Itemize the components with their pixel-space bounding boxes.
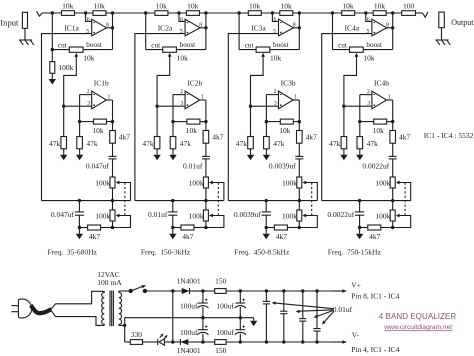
svg-text:47k: 47k [273, 139, 285, 148]
pin 8 IC1a [106, 22, 109, 28]
label V+ [351, 281, 361, 290]
capacitor 100uf C4 [235, 325, 246, 335]
label 10k feedback stage2 [186, 126, 198, 135]
svg-text:0.01uf: 0.01uf [148, 210, 168, 219]
op-amp IC1a [92, 19, 107, 36]
wire rail to cap lower stage1 [78, 201, 80, 212]
svg-text:V-: V- [352, 330, 360, 339]
node stage4 mid junction [364, 11, 367, 14]
wire node to diode bottom [173, 341, 181, 343]
svg-text:47k: 47k [236, 139, 248, 148]
wire 100k to ground [51, 73, 53, 79]
wire IC2b output column [205, 100, 207, 156]
wire IC2b inverting input [173, 94, 185, 96]
svg-text:IC1a: IC1a [64, 24, 79, 33]
capacitor 0.0022uf lower stage4 [355, 212, 364, 215]
node rail cap junction stage1 [78, 199, 81, 202]
node V- filter input [201, 340, 204, 343]
wire pot2 bottom stage3 [298, 221, 300, 228]
svg-text:150: 150 [215, 277, 227, 286]
wire boost side stage1 [83, 49, 113, 51]
svg-text:4k7: 4k7 [369, 232, 381, 241]
node 4k7 lower left stage1 [78, 226, 81, 229]
label 100k upper stage1 [95, 178, 110, 187]
svg-text:Freq. 750-15kHz: Freq. 750-15kHz [328, 248, 382, 257]
label 100k upper stage2 [189, 178, 204, 187]
pin 6 IC4a [367, 17, 370, 23]
wire 47k second to ground stage4 [359, 149, 361, 155]
resistor 10k stage1 second [93, 1, 106, 15]
wire stage2 output column [205, 13, 207, 50]
svg-text:1N4001: 1N4001 [177, 346, 201, 355]
node secondary bottom junction [123, 324, 126, 327]
potentiometer 100k lower stage2 wiper [206, 214, 224, 228]
label cut stage2 [151, 41, 160, 49]
pin 1 IC1b [108, 95, 111, 101]
wire IC3a output [293, 27, 299, 29]
wire IC3b inverting input [266, 94, 278, 96]
wire IC1b output column [112, 100, 114, 156]
wire AC top to LED row [172, 291, 174, 342]
node stage4 input junction [331, 11, 334, 14]
node rail pot junction stage2 [204, 199, 207, 202]
resistor 47k first stage4 [341, 137, 347, 149]
label 4k7 lower stage1 [89, 232, 101, 241]
resistor 4k7 upper stage1 [110, 131, 116, 144]
wire feedback left stage2 [173, 121, 187, 123]
label cap upper stage1 [86, 162, 110, 171]
op-amp IC4a [372, 19, 387, 36]
potentiometer 100k lower stage4 wiper [393, 214, 411, 228]
svg-text:100k: 100k [189, 211, 204, 220]
pin 5 IC4a [367, 29, 370, 35]
label Output [451, 18, 474, 27]
wire 150 to V+ rail [226, 290, 332, 292]
node V+ cap2 junction [239, 289, 242, 292]
pin 3 IC3b [274, 101, 277, 107]
wire rail to cap lower stage4 [359, 201, 361, 212]
svg-text:10k: 10k [156, 1, 168, 10]
svg-text:0.0022uf: 0.0022uf [362, 162, 389, 171]
wire 150 to V- rail [226, 341, 332, 343]
svg-text:47k: 47k [142, 139, 154, 148]
label boost stage1 [86, 41, 102, 49]
capacitor 0.01uf lower stage2 [168, 212, 177, 215]
label 150 top [215, 277, 227, 286]
wire lower ground stage2 [172, 228, 174, 234]
label 100k upper stage3 [282, 178, 297, 187]
resistor 4k7 lower stage4 [368, 225, 381, 230]
svg-text:100uf: 100uf [216, 302, 234, 311]
label 4k7 upper stage2 [212, 133, 224, 142]
wire C2 top [202, 318, 204, 330]
wire bottom rail stage4 [322, 200, 411, 202]
wire node to 150 top [203, 290, 215, 292]
svg-text:10k: 10k [363, 53, 375, 62]
svg-text:cut: cut [58, 41, 67, 49]
svg-text:10k: 10k [373, 126, 385, 135]
svg-text:10k: 10k [92, 126, 104, 135]
capacitor 100uf C3 [235, 299, 246, 309]
resistor 47k second stage1 [77, 137, 83, 149]
svg-text:10k: 10k [249, 1, 261, 10]
wire pointer cap3 [314, 310, 334, 317]
resistor 100k input bias [50, 62, 55, 74]
node 4k7 lower left stage3 [265, 226, 268, 229]
wire rail to cap lower stage3 [265, 201, 267, 212]
label 4k7 upper stage3 [306, 133, 318, 142]
diode D1 1N4001 [182, 288, 190, 294]
ground 47k second stage3 [263, 155, 270, 161]
label 47k first stage1 [49, 139, 61, 148]
label freq stage3 [234, 248, 290, 257]
wire IC1a inverting input [86, 13, 92, 21]
svg-text:4k7: 4k7 [182, 232, 194, 241]
ground 47k second stage4 [356, 155, 363, 161]
resistor 47k second stage2 [170, 137, 176, 149]
ground 47k first stage3 [247, 155, 254, 161]
wire boost side stage3 [270, 49, 300, 51]
node decoupling cap 4 bottom [315, 340, 318, 343]
svg-text:100k: 100k [282, 178, 297, 187]
node IC3a output [298, 26, 301, 29]
wire center rail [125, 317, 254, 319]
wire center to 330 [125, 341, 131, 343]
node decoupling cap 1 top [265, 289, 268, 292]
resistor 47k first stage2 [154, 137, 160, 149]
wire feedback left stage1 [80, 121, 94, 123]
wire IC1b output [106, 99, 112, 101]
wire gang dashed stage3 [311, 183, 313, 216]
capacitor 0.0039uf upper stage3 [295, 156, 303, 159]
resistor 10k stage4 second [373, 1, 386, 15]
ground center rail [250, 321, 257, 327]
node rail pot junction stage3 [298, 199, 301, 202]
ground 47k first stage4 [340, 155, 347, 161]
capacitor 0.0022uf upper stage4 [389, 156, 397, 159]
svg-text:IC3b: IC3b [281, 79, 296, 88]
ground lower stage3 [263, 234, 270, 240]
node IC1b non-inverting junction [62, 105, 65, 108]
pin 8 IC3a [293, 22, 296, 28]
pin 1 IC4b [388, 95, 391, 101]
op-amp IC1b [92, 91, 107, 109]
wire pot2 bottom stage1 [112, 221, 114, 228]
svg-text:6: 6 [180, 17, 183, 23]
svg-text:100k: 100k [375, 211, 390, 220]
capacitor 100uf C1 [197, 299, 208, 309]
svg-text:10k: 10k [186, 126, 198, 135]
svg-text:IC4a: IC4a [345, 24, 360, 33]
node stage1 mid junction [84, 11, 87, 14]
wire secondary bottom [119, 324, 125, 326]
svg-text:330: 330 [131, 330, 143, 339]
node pot2 bottom stage3 [298, 226, 301, 229]
node decoupling cap 1 bottom [265, 340, 268, 343]
node rail cap junction stage4 [358, 199, 361, 202]
wire feedback column stage3 [265, 95, 267, 137]
potentiometer 10k stage4 wiper [344, 53, 359, 106]
wire IC4a output [387, 27, 393, 29]
wire cut side stage2 [146, 49, 163, 51]
wire IC1b non-inverting input [64, 105, 92, 107]
svg-text:IC4b: IC4b [374, 79, 389, 88]
svg-text:100uf: 100uf [216, 328, 234, 337]
label 330 [131, 330, 143, 339]
wire 47k first top stage4 [343, 106, 345, 136]
wire output load to ground [441, 28, 443, 40]
wire to output break [416, 12, 423, 14]
wire stage4 output column [392, 13, 394, 50]
wire 4k7 lower right stage2 [194, 227, 206, 229]
node decoupling cap 2 top [282, 289, 285, 292]
svg-text:6: 6 [87, 17, 90, 23]
pin 6 IC3a [274, 17, 277, 23]
wire center rail ground stem [253, 318, 255, 321]
svg-text:0.0039uf: 0.0039uf [234, 210, 261, 219]
wire C3 top [239, 291, 241, 303]
wire 4k7 lower right stage4 [381, 227, 393, 229]
wire switch to diode [145, 290, 182, 292]
node stage2 input junction [144, 11, 147, 14]
pin 2 IC1b [87, 89, 90, 95]
wire cut side stage4 [333, 49, 350, 51]
resistor 10k feedback stage2 [187, 119, 200, 124]
node feedback left stage4 [358, 120, 361, 123]
label cap upper stage2 [183, 162, 203, 171]
node pot2 bottom stage4 [391, 226, 394, 229]
resistor 47k first stage3 [248, 137, 254, 149]
node feedback left stage1 [78, 120, 81, 123]
wire gang dashed stage4 [404, 183, 406, 216]
wire 47k first top stage1 [63, 106, 65, 136]
node stage2 output junction [204, 11, 207, 14]
wire lower ground stage3 [265, 228, 267, 234]
potentiometer 100k upper stage2 body [203, 177, 208, 188]
wire C4 bottom [239, 334, 241, 342]
wire top signal rail [42, 12, 402, 14]
svg-text:boost: boost [86, 41, 102, 49]
op-amp IC4b [372, 91, 387, 109]
wire stage4 input column [332, 13, 334, 50]
pin 5 IC3a [273, 29, 276, 35]
node stage1 input junction [51, 11, 54, 14]
label 4k7 lower stage2 [182, 232, 194, 241]
wire stage1 output column [112, 13, 114, 50]
svg-text:4k7: 4k7 [119, 133, 131, 142]
ground lower stage4 [356, 234, 363, 240]
potentiometer 100k upper stage3 body [297, 177, 302, 188]
node V- cap junction [239, 340, 242, 343]
pin 3 IC4b [367, 101, 370, 107]
node center rail cap2 [239, 316, 242, 319]
ground lower stage2 [169, 234, 176, 240]
svg-text:6: 6 [367, 17, 370, 23]
node stage3 input junction [237, 11, 240, 14]
wire cap lower to 4k7 stage3 [265, 215, 267, 227]
ground 100k [49, 79, 56, 85]
capacitor 0.047uf upper stage1 [109, 156, 117, 159]
capacitor 100uf C2 [197, 325, 208, 335]
wire input connector break [37, 11, 43, 16]
wire cap to pot1 stage2 [205, 159, 207, 177]
node stage3 mid junction [271, 11, 274, 14]
svg-text:IC1 - IC4 : 5532: IC1 - IC4 : 5532 [424, 131, 474, 140]
potentiometer 100k lower stage1 wiper [113, 214, 131, 228]
label cut stage3 [245, 41, 254, 49]
svg-text:cut: cut [338, 41, 347, 49]
label cap lower stage1 [51, 210, 75, 219]
wire secondary top to switch [119, 290, 131, 292]
node IC3b non-inverting junction [249, 105, 252, 108]
node V+ filter input [201, 289, 204, 292]
wire decoupling cap 4 column [316, 291, 318, 342]
node feedback right stage3 [298, 120, 301, 123]
wire IC2a non-inverting input loop [135, 34, 185, 201]
node IC1a output [111, 26, 114, 29]
node feedback right stage2 [204, 120, 207, 123]
label 100uf C1 [180, 302, 198, 311]
wire C3 bottom [239, 307, 241, 318]
ground input (chassis) [19, 40, 34, 45]
resistor 150 bottom [215, 340, 226, 345]
potentiometer 100k upper stage4 wiper [396, 181, 411, 201]
node rail pot junction stage4 [391, 199, 394, 202]
pin 3 IC2b [181, 101, 184, 107]
wire cap lower to 4k7 stage1 [78, 215, 80, 227]
node decoupling cap 3 top [301, 289, 304, 292]
svg-text:100k: 100k [95, 211, 110, 220]
potentiometer 100k lower stage3 body [297, 210, 302, 221]
wire feedback right stage3 [293, 121, 299, 123]
potentiometer 100k lower stage3 wiper [299, 214, 317, 228]
pin 3 IC1b [87, 101, 90, 107]
svg-text:Output: Output [451, 18, 474, 27]
potentiometer 100k lower stage4 body [390, 210, 395, 221]
svg-text:4k7: 4k7 [306, 133, 318, 142]
svg-text:4k7: 4k7 [212, 133, 224, 142]
potentiometer 10k stage1 wiper [64, 53, 78, 106]
wire cap to pot1 stage3 [298, 159, 300, 177]
label 100k lower stage2 [189, 211, 204, 220]
svg-text:10k: 10k [270, 53, 282, 62]
ground 47k first stage2 [153, 155, 160, 161]
capacitor 0.01uf upper stage2 [202, 156, 210, 159]
wire feedback column stage2 [172, 95, 174, 137]
resistor 10k feedback stage1 [94, 119, 107, 124]
potentiometer 10k stage3 body [256, 47, 270, 52]
wire diode to V- node [188, 341, 203, 343]
wire 47k first to ground stage3 [250, 149, 252, 155]
svg-text:6: 6 [274, 17, 277, 23]
node feedback right stage4 [391, 120, 394, 123]
svg-text:100k: 100k [189, 178, 204, 187]
wire bottom rail stage3 [228, 200, 317, 202]
svg-text:100k: 100k [95, 178, 110, 187]
label 150 bottom [215, 346, 227, 355]
svg-text:47k: 47k [329, 139, 341, 148]
wire feedback right stage2 [200, 121, 206, 123]
label 47k second stage4 [367, 139, 379, 148]
label 47k first stage4 [329, 139, 341, 148]
svg-text:100 mA: 100 mA [97, 278, 122, 287]
label 100k upper stage4 [375, 178, 390, 187]
svg-text:Freq. 450-8.5kHz: Freq. 450-8.5kHz [234, 248, 290, 257]
svg-text:150: 150 [215, 346, 227, 355]
label 100k lower stage4 [375, 211, 390, 220]
svg-text:1N4001: 1N4001 [177, 277, 201, 286]
wire IC4b non-inverting input [344, 105, 372, 107]
node Input label [0, 17, 19, 27]
resistor 10k stage3 second [280, 1, 293, 15]
switch S1 [129, 285, 148, 293]
svg-text:0.0022uf: 0.0022uf [327, 210, 354, 219]
potentiometer 100k upper stage2 wiper [209, 181, 224, 201]
label boost stage3 [273, 41, 289, 49]
wire cap lower to 4k7 stage2 [172, 215, 174, 227]
svg-text:IC1b: IC1b [94, 79, 109, 88]
wire feedback right stage4 [387, 121, 393, 123]
node decoupling cap 2 bottom [282, 340, 285, 343]
LED indicator [158, 334, 168, 346]
node stage1 cut junction [51, 48, 54, 51]
capacitor 0.01uf decoupling 1 [263, 301, 270, 304]
label boost stage2 [180, 41, 196, 49]
node stage2 mid junction [177, 11, 180, 14]
pin 2 IC4b [367, 89, 370, 95]
op-amp IC2a [185, 19, 200, 36]
wire 47k first to ground stage2 [156, 149, 158, 155]
svg-text:0.047uf: 0.047uf [51, 210, 75, 219]
node IC4a output [391, 26, 394, 29]
svg-text:10k: 10k [62, 1, 74, 10]
potentiometer 10k stage4 body [350, 47, 364, 52]
svg-text:cut: cut [151, 41, 160, 49]
wire gang dashed stage1 [124, 183, 126, 216]
ground output (chassis) [436, 40, 451, 45]
wire feedback right stage1 [107, 121, 113, 123]
svg-text:www.circuitdiagram.net: www.circuitdiagram.net [383, 324, 452, 331]
node stage3 output junction [298, 11, 301, 14]
label cap lower stage4 [327, 210, 354, 219]
svg-text:10k: 10k [83, 53, 95, 62]
node feedback left stage2 [171, 120, 174, 123]
label 12VAC [97, 270, 119, 279]
potentiometer 10k stage2 body [163, 47, 177, 52]
wire IC4a non-inverting input loop [322, 34, 372, 201]
svg-text:4k7: 4k7 [276, 232, 288, 241]
svg-text:10k: 10k [187, 1, 199, 10]
label freq stage2 [141, 248, 191, 257]
svg-text:cut: cut [245, 41, 254, 49]
label 10k pot stage3 [270, 53, 282, 62]
node stage1 output junction [111, 11, 114, 14]
wire IC2a inverting input [179, 13, 185, 21]
label freq stage4 [328, 248, 382, 257]
label cut stage4 [338, 41, 347, 49]
wire AC cord to primary bottom [51, 310, 105, 325]
resistor 10k feedback stage3 [280, 119, 293, 124]
resistor 150 top [215, 289, 226, 294]
wire IC4b output column [392, 100, 394, 156]
svg-text:47k: 47k [180, 139, 192, 148]
wire decoupling cap 3 column [302, 291, 304, 342]
wire stage3 input column [238, 13, 240, 50]
pin 5 IC1a [86, 29, 89, 35]
svg-text:100uf: 100uf [180, 302, 198, 311]
wire pointer cap1 [272, 301, 334, 308]
wire output connector break [422, 12, 428, 17]
